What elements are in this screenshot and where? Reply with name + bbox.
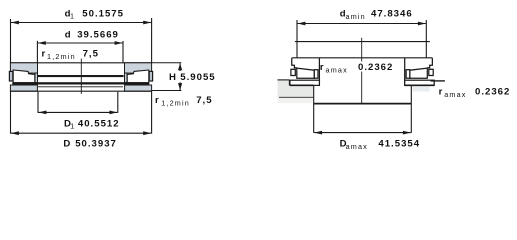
left roller (white tapered) bbox=[297, 68, 315, 78]
top washer right section (shaded, mirrored) bbox=[125, 63, 153, 83]
dimension d_amin extension line right bbox=[425, 20, 427, 58]
dimension D extension corner right bbox=[151, 91, 153, 133]
dimension D1 extension line left bbox=[37, 92, 39, 113]
dimension line d_amin bbox=[297, 22, 426, 26]
label D1 40.5512 bbox=[64, 119, 120, 131]
shaft shoulder and slab (light gray) bbox=[278, 80, 314, 97]
svg-text:H5.9055: H5.9055 bbox=[169, 72, 216, 83]
bearing bottom line (right section) bbox=[405, 84, 435, 86]
dimension d extension line left bbox=[36, 41, 38, 63]
bottom washer left section (shaded) bbox=[10, 85, 37, 91]
label r 1,2min 7,5 (lower right) bbox=[155, 95, 213, 107]
label H 5.9055 bbox=[169, 72, 216, 83]
center line of left figure bbox=[80, 59, 82, 94]
right washer lip profile bbox=[427, 58, 432, 68]
bearing bottom edge line bbox=[10, 90, 151, 92]
label d 39.5669 bbox=[65, 30, 119, 41]
housing top edge bbox=[295, 41, 430, 43]
label d1 50.1575 bbox=[65, 8, 124, 20]
right bottom washer (white, mirrored) bbox=[405, 80, 435, 85]
middle lower thick band (roller bottom line) bbox=[12, 82, 149, 84]
housing abutment surface line right bbox=[431, 80, 445, 82]
H dimension stub top bbox=[152, 62, 182, 64]
housing block left edge / D_amax extension left bbox=[313, 86, 315, 133]
dimension line D1 bbox=[38, 111, 117, 115]
label r_amax 0.2362 (outer right) bbox=[439, 86, 511, 99]
bearing bottom line (left section) bbox=[290, 84, 314, 86]
middle thin line (shaft washer edge) bbox=[38, 86, 123, 88]
bottom washer right section (shaded, mirrored) bbox=[125, 85, 152, 91]
right washer lip bar bbox=[429, 69, 433, 75]
right roller (white tapered, mirrored) bbox=[410, 68, 428, 78]
roller right (white tapered, mirrored) bbox=[127, 70, 149, 83]
roller left (white tapered) bbox=[13, 70, 35, 83]
center line of right figure bbox=[361, 38, 363, 104]
label d_amin 47.8346 bbox=[340, 8, 413, 20]
right washer inner edge bbox=[404, 58, 406, 86]
top washer left section (shaded) bbox=[9, 63, 37, 83]
left washer inner edge bbox=[318, 58, 320, 86]
label r 1,2min 7,5 (upper) bbox=[42, 48, 99, 60]
H arrow down bbox=[178, 82, 182, 90]
left inner small bar bbox=[314, 70, 318, 79]
right inner small bar bbox=[406, 70, 410, 79]
housing block right edge / D_amax extension right bbox=[410, 85, 412, 133]
dimension line d bbox=[38, 41, 123, 45]
housing seat line / bearing top bbox=[292, 57, 433, 59]
middle upper thick band (washer raceway) bbox=[38, 75, 124, 77]
dimension d1 extension line left bbox=[10, 19, 12, 63]
faint housing patch right of block bbox=[413, 86, 430, 91]
label D 50.3937 bbox=[63, 139, 116, 150]
dimension d_amin extension line left bbox=[296, 20, 298, 58]
left washer lip bar bbox=[291, 69, 295, 75]
dimension d extension line right bbox=[122, 41, 124, 63]
bearing top edge line bbox=[10, 62, 151, 64]
shaft lighter band below bbox=[278, 98, 313, 103]
dimension line D bbox=[11, 131, 151, 135]
dimension line d1 bbox=[11, 21, 151, 25]
H arrow up bbox=[178, 63, 182, 71]
dimension line D_amax bbox=[314, 131, 411, 135]
dimension d1 extension line right bbox=[151, 18, 153, 63]
left bottom washer (white) bbox=[290, 80, 320, 85]
label r_amax 0.2362 (inner) bbox=[320, 62, 393, 75]
dimension D extension corner left bbox=[10, 91, 12, 133]
label D_amax 41.5354 bbox=[340, 139, 420, 151]
housing block bottom line bbox=[314, 103, 412, 105]
H dimension stub bottom bbox=[152, 90, 182, 92]
left washer lip profile bbox=[292, 58, 297, 68]
dimension D1 extension line right bbox=[117, 92, 119, 113]
